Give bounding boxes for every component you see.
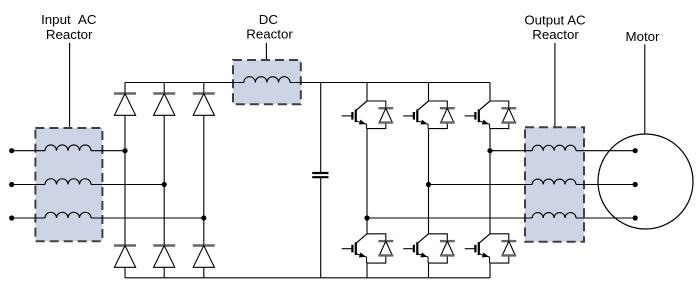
wire: inverter leg 2 lower cell loop: [429, 234, 448, 278]
diode D6 (rectifier bottom, leg 3): [193, 246, 215, 268]
wire: + bus, DC reactor to inverter: [290, 82, 490, 84]
wire: input phase T to reactor: [12, 217, 45, 219]
freewheel diode D12 (lower, leg 3): [501, 241, 516, 255]
label lead line: Motor: [644, 44, 646, 134]
diode D2 (rectifier top, leg 2): [153, 94, 175, 116]
IGBT Q2 (upper, leg 2): [403, 101, 428, 129]
IGBT Q4 (lower, leg 1): [342, 234, 367, 263]
diode D4 (rectifier bottom, leg 1): [114, 246, 136, 268]
wire: input reactor phase R to rectifier leg: [91, 150, 125, 152]
input AC reactor block (dashed box): [35, 128, 102, 241]
label: Output AC Reactor: [524, 12, 586, 42]
inductor: output reactor phase W: [532, 213, 576, 218]
wire: output phase U to reactor: [490, 150, 532, 152]
motor terminal node phase W: [633, 215, 638, 220]
wire: output phase V to reactor: [429, 184, 533, 186]
wire: inverter leg 1 midpoint: [366, 129, 368, 234]
wire: output phase W to reactor: [367, 217, 532, 219]
freewheel diode D8 (upper, leg 2): [440, 108, 455, 122]
inductor: input reactor phase T: [45, 212, 91, 218]
svg-text:Input AC: Input AC: [41, 12, 97, 27]
wire: rectifier leg 1: [124, 83, 126, 278]
diode D5 (rectifier bottom, leg 2): [153, 246, 175, 268]
input terminal node phase S: [9, 182, 14, 187]
wire: inverter leg 3 upper cell loop: [490, 83, 509, 129]
capacitor C1 (DC bus): [312, 173, 328, 177]
motor terminal node phase V: [633, 182, 638, 187]
junction node: inverter output phase W: [364, 215, 369, 220]
junction node: phase S / rectifier leg 2: [162, 182, 167, 187]
input terminal node phase T: [9, 215, 14, 220]
freewheel diode D7 (upper, leg 1): [378, 108, 393, 122]
wire: capacitor top lead: [320, 83, 322, 174]
wire: input phase S to reactor: [12, 184, 45, 186]
IGBT Q1 (upper, leg 1): [342, 101, 367, 129]
junction node: phase R / rectifier leg 1: [122, 148, 127, 153]
junction node: phase T / rectifier leg 3: [201, 215, 206, 220]
junction node: inverter output phase V: [426, 182, 431, 187]
label: Motor: [626, 29, 661, 44]
freewheel diode D11 (lower, leg 2): [440, 241, 455, 255]
wire: output reactor phase W to motor: [576, 217, 635, 219]
input terminal node phase R: [9, 148, 14, 153]
wire: input reactor phase T to rectifier leg: [91, 217, 204, 219]
label lead line: Input AC Reactor: [69, 43, 71, 128]
wire: inverter leg 3 lower cell loop: [490, 234, 509, 278]
motor M (circle): [598, 134, 693, 229]
freewheel diode D9 (upper, leg 3): [501, 108, 516, 122]
inductor: input reactor phase S: [45, 179, 91, 185]
inductor: output reactor phase V: [532, 179, 576, 184]
svg-text:Output AC: Output AC: [524, 12, 586, 27]
svg-text:Reactor: Reactor: [246, 27, 293, 42]
wire: inverter leg 2 midpoint: [428, 129, 430, 234]
wire: - bus (rectifier to inverter): [125, 277, 490, 279]
svg-text:Reactor: Reactor: [532, 27, 579, 42]
wire: + bus, rectifier to DC reactor: [125, 82, 244, 84]
wire: inverter leg 3 midpoint: [489, 129, 491, 234]
label: DC Reactor: [246, 12, 293, 42]
svg-text:Reactor: Reactor: [46, 27, 93, 42]
diode D1 (rectifier top, leg 1): [114, 94, 136, 116]
DC reactor block (dashed box): [233, 60, 301, 104]
wire: inverter leg 2 upper cell loop: [429, 83, 448, 129]
IGBT Q3 (upper, leg 3): [465, 101, 490, 129]
output AC reactor block (dashed box): [525, 127, 584, 242]
svg-text:DC: DC: [259, 12, 279, 27]
svg-text:Motor: Motor: [626, 29, 661, 44]
junction node: inverter output phase U: [487, 148, 492, 153]
motor terminal node phase U: [633, 148, 638, 153]
wire: capacitor bottom lead: [320, 177, 322, 278]
inductor: input reactor phase R: [45, 145, 91, 151]
wire: input reactor phase S to rectifier leg: [91, 184, 164, 186]
freewheel diode D10 (lower, leg 1): [378, 241, 393, 255]
label lead line: Output AC Reactor: [554, 43, 556, 127]
wire: rectifier leg 2: [163, 83, 165, 278]
wire: output reactor phase V to motor: [576, 184, 635, 186]
diode D3 (rectifier top, leg 3): [193, 94, 215, 116]
wire: inverter leg 1 lower cell loop: [367, 234, 386, 278]
IGBT Q6 (lower, leg 3): [465, 234, 490, 263]
wire: inverter leg 1 upper cell loop: [367, 83, 386, 129]
label: Input AC Reactor: [41, 12, 97, 42]
inductor: output reactor phase U: [532, 145, 576, 150]
inductor: DC reactor: [244, 77, 290, 83]
IGBT Q5 (lower, leg 2): [403, 234, 428, 263]
label lead line: DC Reactor: [265, 43, 267, 60]
wire: input phase R to reactor: [12, 150, 45, 152]
wire: rectifier leg 3: [203, 83, 205, 278]
wire: output reactor phase U to motor: [576, 150, 635, 152]
